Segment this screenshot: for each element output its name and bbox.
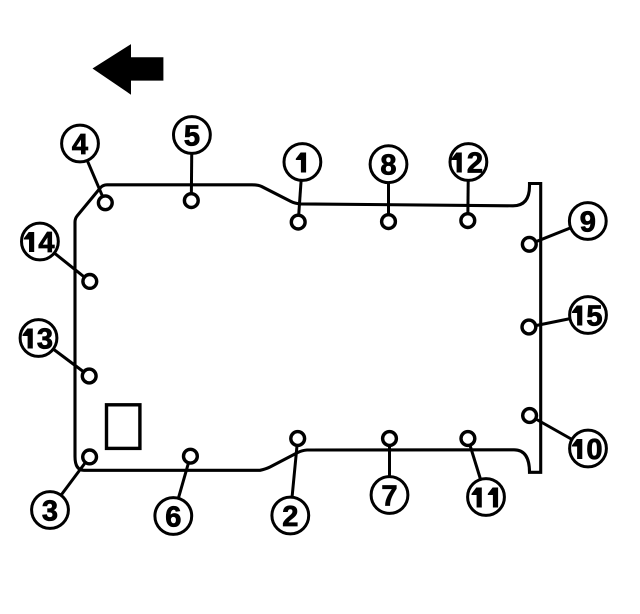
- bolt 1 callout: [284, 144, 321, 229]
- callout circle 6: [155, 498, 192, 535]
- callout circle 4: [62, 125, 99, 162]
- svg-text:5: 5: [586, 301, 602, 333]
- leader line 10: [530, 416, 588, 449]
- svg-text:3: 3: [37, 324, 53, 356]
- svg-text:0: 0: [586, 434, 602, 466]
- bolt 3 callout: [32, 450, 97, 528]
- leader line 15: [529, 315, 588, 327]
- svg-text:8: 8: [380, 150, 396, 182]
- bolt hole 7: [383, 432, 397, 446]
- bolt hole 8: [382, 215, 396, 229]
- bolt hole 12: [461, 214, 475, 228]
- bolt 13 callout: [20, 320, 96, 383]
- bolt hole 5: [184, 194, 198, 208]
- leader line 1: [298, 162, 302, 222]
- bolt 2 callout: [272, 432, 309, 534]
- svg-text:5: 5: [184, 121, 200, 153]
- leader line 5: [190, 135, 194, 201]
- bolt hole 6: [184, 449, 198, 463]
- bolt hole 14: [83, 275, 97, 289]
- bolt 15 callout: [522, 297, 606, 334]
- bolt hole 13: [82, 369, 96, 383]
- svg-text:2: 2: [282, 501, 298, 533]
- bolt hole 15: [522, 320, 536, 334]
- callout circle 5: [174, 117, 211, 154]
- leader line 4: [80, 144, 105, 203]
- svg-text:6: 6: [165, 502, 181, 534]
- leader line 12: [466, 162, 470, 221]
- callout circle 10: [570, 430, 607, 467]
- bolt 12 callout: [450, 144, 487, 228]
- bolt 8 callout: [370, 146, 407, 229]
- callout circle 1: [284, 144, 321, 181]
- callout circle 14: [22, 223, 59, 260]
- leader line 6: [173, 456, 190, 516]
- bolt 10 callout: [523, 409, 607, 467]
- bolt 7 callout: [371, 432, 408, 514]
- leader line 11: [468, 439, 486, 498]
- leader line 9: [529, 221, 588, 244]
- bolt hole 1: [291, 215, 305, 229]
- drain plug rectangle: [107, 405, 140, 449]
- leader line 8: [387, 164, 390, 221]
- leader line 13: [39, 338, 90, 376]
- label text 14: [24, 232, 34, 252]
- bolt 9 callout: [522, 203, 606, 252]
- callout circle 12: [450, 144, 487, 181]
- bolt hole 4: [98, 196, 112, 210]
- label text 13: [23, 329, 33, 349]
- bolt 5 callout: [174, 117, 211, 208]
- bolt 4 callout: [62, 125, 113, 210]
- leader line 3: [50, 457, 90, 510]
- callout circle 7: [371, 477, 408, 514]
- bolt hole 11: [461, 432, 475, 446]
- label text 15: [572, 306, 582, 326]
- callout circle 2: [272, 497, 309, 534]
- bolt hole 9: [522, 237, 536, 251]
- bolt hole 10: [523, 409, 537, 423]
- callout circle 11: [468, 479, 505, 516]
- callout circle 9: [569, 203, 606, 240]
- svg-text:4: 4: [72, 129, 88, 161]
- label text 11: [472, 488, 482, 508]
- callout circle 3: [32, 492, 69, 529]
- leader line 7: [388, 439, 391, 496]
- svg-text:4: 4: [38, 227, 54, 259]
- bolt 6 callout: [155, 449, 197, 534]
- svg-text:7: 7: [381, 481, 397, 513]
- direction arrow (pointing left): [93, 44, 164, 95]
- oil pan gasket outline: [75, 184, 541, 473]
- bolt 14 callout: [22, 223, 97, 288]
- bolt 11 callout: [461, 432, 504, 516]
- svg-text:9: 9: [580, 207, 596, 239]
- callout circle 15: [570, 297, 607, 334]
- leader line 14: [40, 242, 90, 282]
- leader line 2: [290, 439, 297, 516]
- label text 12: [452, 153, 462, 173]
- callout circle 8: [370, 146, 407, 183]
- label text 1: [296, 153, 306, 173]
- svg-text:2: 2: [467, 148, 483, 180]
- label text 10: [572, 439, 582, 459]
- bolt hole 2: [291, 432, 305, 446]
- callout circle 13: [20, 320, 57, 357]
- bolt hole 3: [83, 450, 97, 464]
- svg-text:3: 3: [42, 496, 58, 528]
